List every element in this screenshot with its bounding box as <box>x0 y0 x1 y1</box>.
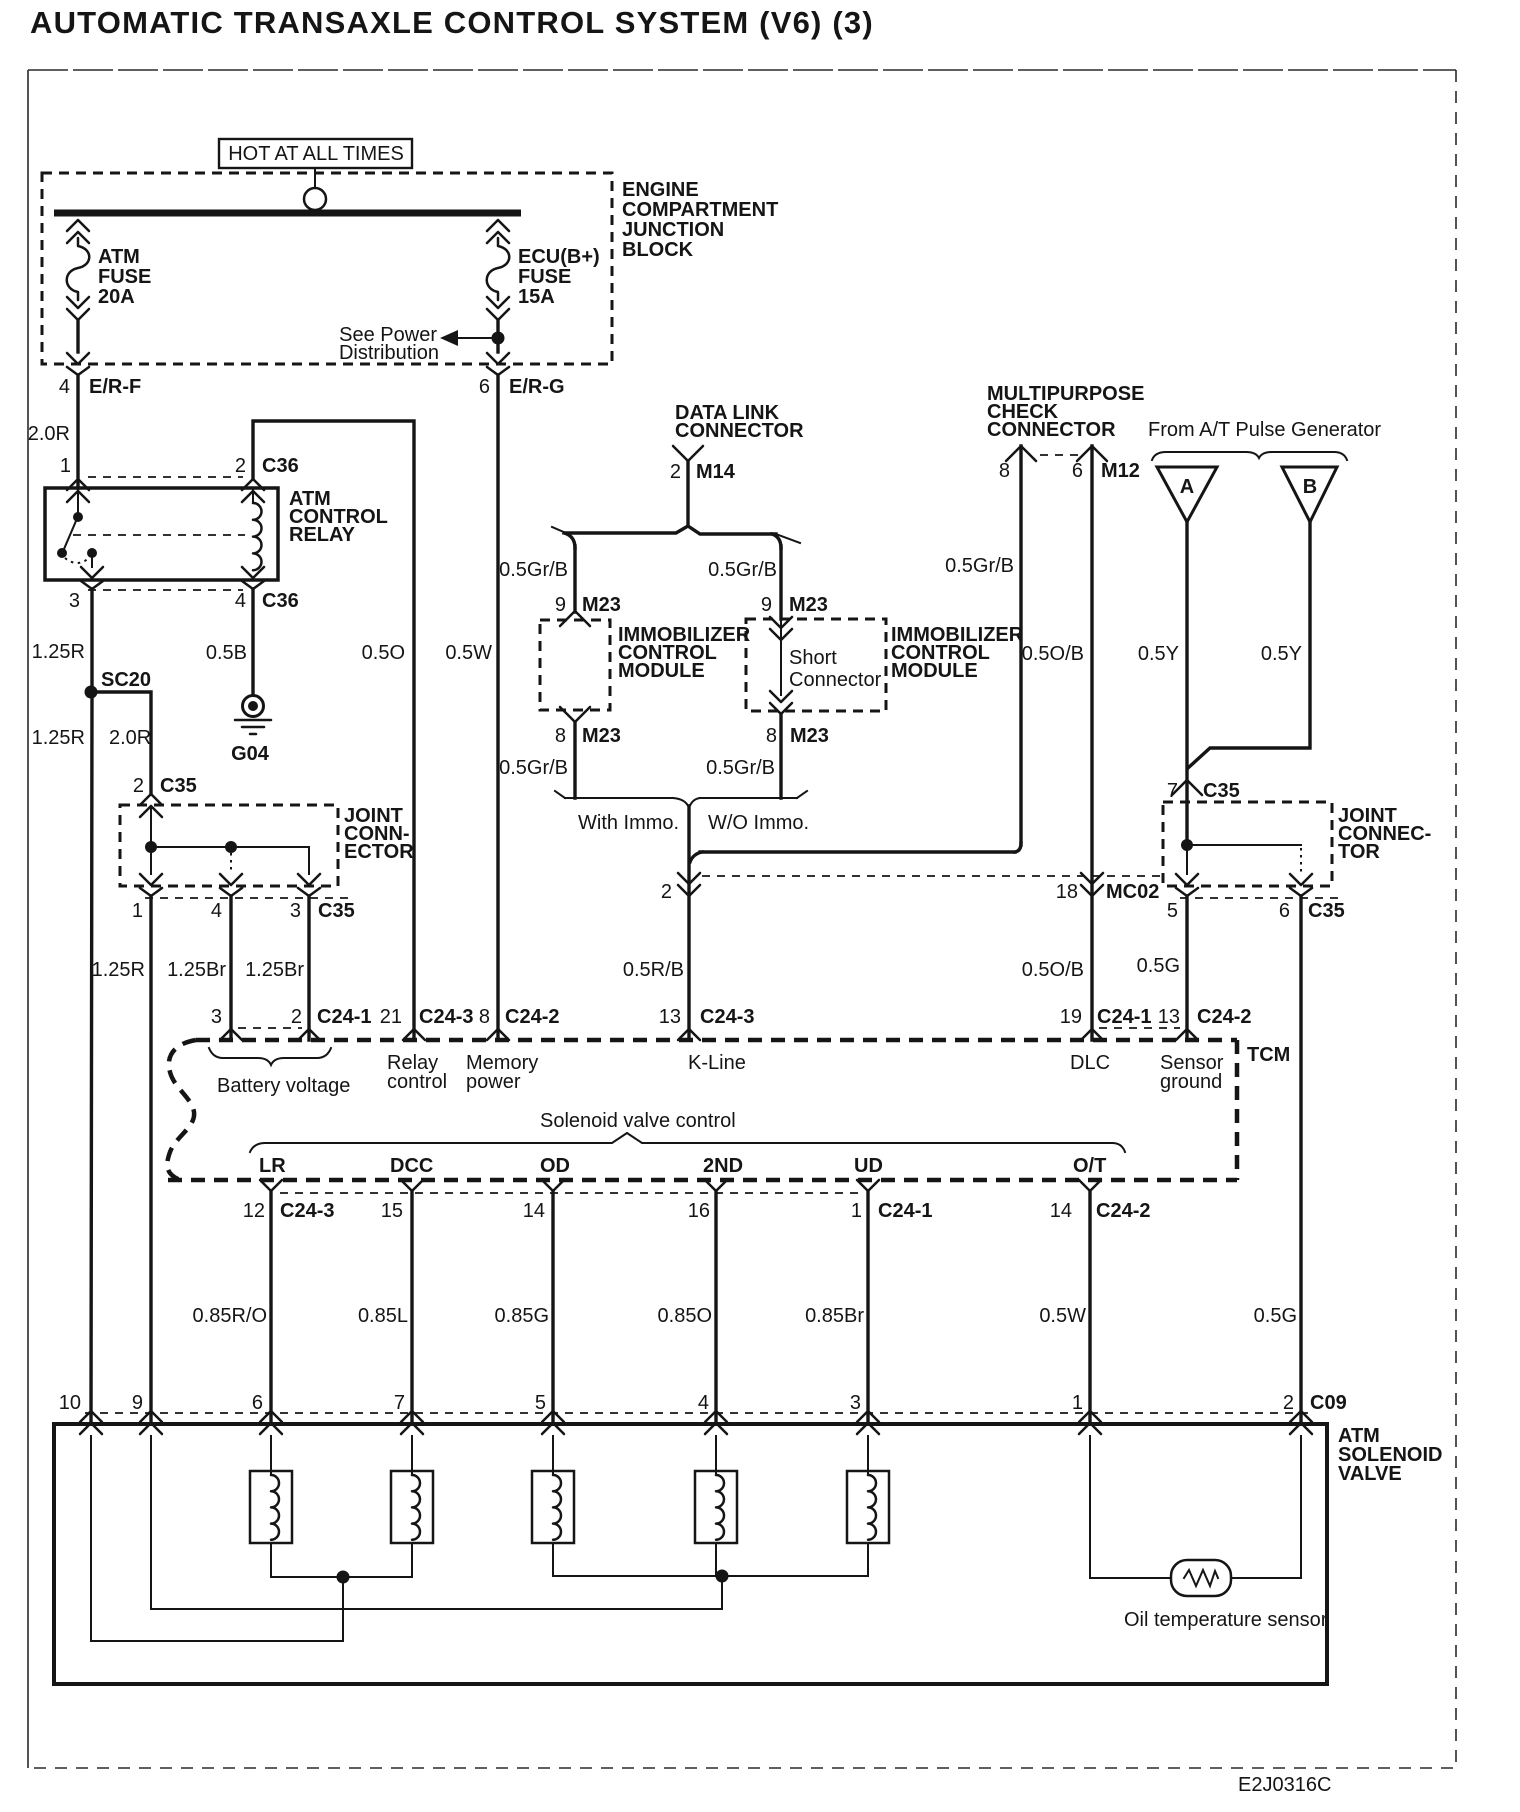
wire relay pin3 down (1.25R) to C09 pin 10 <box>91 589 92 1423</box>
svg-text:C35: C35 <box>160 775 197 797</box>
joint connector (left) dashed box <box>120 805 338 886</box>
internal bus <box>151 846 309 848</box>
svg-text:8: 8 <box>479 1006 490 1028</box>
svg-text:9: 9 <box>761 594 772 616</box>
TCM pin 2 C24-1 chevron <box>298 1029 320 1040</box>
svg-text:1.25Br: 1.25Br <box>167 959 226 981</box>
wire stem from HOT box to bus <box>314 168 316 188</box>
wire from B down, jog left into A line <box>1188 522 1310 768</box>
svg-text:A: A <box>1180 476 1194 498</box>
merge bracket right segment <box>700 797 797 799</box>
HOT AT ALL TIMES box <box>219 139 412 168</box>
right overshoot flick <box>776 534 800 543</box>
svg-text:3: 3 <box>850 1392 861 1414</box>
right immobilizer exit chevrons <box>770 691 792 714</box>
svg-text:Short: Short <box>789 647 837 669</box>
svg-text:Oil temperature sensor: Oil temperature sensor <box>1124 1609 1328 1631</box>
see power distribution arrow <box>440 330 458 346</box>
svg-text:6: 6 <box>479 376 490 398</box>
multipurpose pin 6 terminal <box>1077 446 1107 461</box>
svg-text:C24-1: C24-1 <box>878 1200 932 1222</box>
battery voltage underbrace <box>209 1048 331 1065</box>
svg-text:Solenoid valve control: Solenoid valve control <box>540 1110 736 1132</box>
wire from A down (0.5Y) <box>1185 522 1188 845</box>
svg-text:MODULE: MODULE <box>891 660 978 682</box>
switch contact dot NO <box>87 548 97 558</box>
C09 pin 6 chevrons <box>260 1411 282 1434</box>
svg-text:4: 4 <box>211 900 222 922</box>
svg-text:0.5Y: 0.5Y <box>1138 643 1179 665</box>
svg-text:0.5Gr/B: 0.5Gr/B <box>499 559 568 581</box>
oil temperature sensor body <box>1171 1560 1231 1596</box>
svg-text:4: 4 <box>235 590 246 612</box>
svg-text:UD: UD <box>854 1155 883 1177</box>
svg-text:With Immo.: With Immo. <box>578 812 679 834</box>
svg-text:CONNECTOR: CONNECTOR <box>675 420 804 442</box>
internal drop pin1 <box>150 852 152 874</box>
solenoid valve control bracket <box>250 1133 1125 1152</box>
svg-text:0.5G: 0.5G <box>1137 955 1180 977</box>
svg-text:M23: M23 <box>789 594 828 616</box>
merged K-line wire down <box>687 806 690 1040</box>
svg-text:C35: C35 <box>318 900 355 922</box>
solenoid coil LR (pin6) <box>270 1436 272 1474</box>
C35 pin2 entry chevrons <box>140 794 162 817</box>
wire E/R-F down to relay pin 1 <box>76 375 79 488</box>
sensor zigzag <box>1184 1570 1218 1586</box>
svg-text:ATM: ATM <box>98 246 140 268</box>
TCM pin 14 C24-2 O/T chevron <box>1079 1180 1101 1191</box>
svg-text:1: 1 <box>1072 1392 1083 1414</box>
wire relay pin4 down (0.5B) to ground <box>251 589 254 695</box>
svg-text:From A/T Pulse Generator: From A/T Pulse Generator <box>1148 419 1381 441</box>
thin dashed C35 line <box>1180 897 1345 899</box>
svg-text:COMPARTMENT: COMPARTMENT <box>622 199 778 221</box>
multipurpose pin 8 terminal <box>1006 446 1036 461</box>
svg-text:TOR: TOR <box>1338 841 1380 863</box>
TCM left wavy edge <box>167 1040 196 1180</box>
svg-text:C36: C36 <box>262 455 299 477</box>
svg-text:1: 1 <box>851 1200 862 1222</box>
short connector internal wire <box>780 619 782 695</box>
junction dot <box>225 841 237 853</box>
svg-text:15A: 15A <box>518 286 555 308</box>
svg-text:ENGINE: ENGINE <box>622 179 699 201</box>
svg-text:DLC: DLC <box>1070 1052 1110 1074</box>
svg-text:6: 6 <box>252 1392 263 1414</box>
joint connector exit pin 1 C35 <box>140 874 162 896</box>
svg-text:1.25Br: 1.25Br <box>245 959 304 981</box>
svg-text:16: 16 <box>688 1200 710 1222</box>
internal wire pin10 <box>90 1436 92 1641</box>
short connector dashed box <box>746 619 886 711</box>
svg-text:C24-1: C24-1 <box>1097 1006 1151 1028</box>
svg-text:BLOCK: BLOCK <box>622 239 694 261</box>
right immobilizer entry chevrons <box>770 617 792 640</box>
joint connector right exit pin 6 C35 <box>1290 874 1312 896</box>
M14 stem wire <box>686 461 689 526</box>
svg-text:C24-3: C24-3 <box>700 1006 754 1028</box>
svg-text:C36: C36 <box>262 590 299 612</box>
splice SC20 dot <box>85 686 98 699</box>
relay coil wire from pin2 <box>252 490 254 503</box>
C09 pin 7 chevrons <box>401 1411 423 1434</box>
svg-text:21: 21 <box>380 1006 402 1028</box>
svg-text:CONNECTOR: CONNECTOR <box>987 419 1116 441</box>
svg-text:1.25R: 1.25R <box>32 641 85 663</box>
internal dotted drop pin4 <box>230 853 232 874</box>
svg-text:C09: C09 <box>1310 1392 1347 1414</box>
svg-text:8: 8 <box>766 725 777 747</box>
branch wire SC20 to C35 pin 2 <box>95 692 151 794</box>
internal drop pin5 <box>1186 850 1188 874</box>
svg-text:2: 2 <box>291 1006 302 1028</box>
internal bus <box>1187 844 1301 846</box>
svg-text:Battery voltage: Battery voltage <box>217 1075 350 1097</box>
svg-text:0.5Y: 0.5Y <box>1261 643 1302 665</box>
solenoid wires TCM to C09 <box>269 1191 272 1423</box>
svg-text:15: 15 <box>381 1200 403 1222</box>
ground G04 symbol <box>243 696 264 717</box>
C35 pin7 entry chevron <box>1172 780 1202 795</box>
svg-text:Connector: Connector <box>789 669 882 691</box>
internal dotted drop pin6 <box>1300 848 1302 874</box>
right corner curve into x781 <box>772 534 781 548</box>
svg-text:19: 19 <box>1060 1006 1082 1028</box>
relay switch: wire from pin1 <box>77 490 79 513</box>
svg-text:0.5Gr/B: 0.5Gr/B <box>499 757 568 779</box>
fuse ECU bottom terminals <box>487 297 509 320</box>
relay pin 3 break <box>81 567 103 589</box>
svg-text:13: 13 <box>1158 1006 1180 1028</box>
svg-text:AUTOMATIC TRANSAXLE CONTROL SY: AUTOMATIC TRANSAXLE CONTROL SYSTEM (V6) … <box>30 5 874 40</box>
switch travel dotted arc <box>65 558 89 563</box>
oil temperature sensor circuit <box>1090 1436 1171 1578</box>
thin dashed between pins 19-13 <box>1099 1027 1180 1029</box>
svg-text:2: 2 <box>1283 1392 1294 1414</box>
TCM pin 8 C24-2 chevron <box>487 1029 509 1040</box>
TCM right edge <box>1235 1040 1240 1180</box>
svg-text:0.5O/B: 0.5O/B <box>1022 643 1084 665</box>
thin dashed between pins 3-2 <box>238 1027 302 1029</box>
wire to pin 3 <box>91 557 93 567</box>
svg-text:M12: M12 <box>1101 460 1140 482</box>
svg-text:M23: M23 <box>582 594 621 616</box>
merge bracket left segment <box>565 797 673 799</box>
C09 pin 1 chevrons <box>1079 1411 1101 1434</box>
svg-text:0.5G: 0.5G <box>1254 1305 1297 1327</box>
svg-text:E2J0316C: E2J0316C <box>1238 1774 1331 1796</box>
TCM bottom edge <box>168 1178 1237 1183</box>
svg-text:8: 8 <box>555 725 566 747</box>
C09 pin 4 chevrons <box>705 1411 727 1434</box>
wire pin6 down (0.5G) to C09 pin 2 <box>1299 896 1302 1423</box>
svg-text:O/T: O/T <box>1073 1155 1106 1177</box>
svg-text:JUNCTION: JUNCTION <box>622 219 724 241</box>
svg-text:control: control <box>387 1071 447 1093</box>
svg-text:E/R-F: E/R-F <box>89 376 141 398</box>
svg-text:2ND: 2ND <box>703 1155 743 1177</box>
svg-text:14: 14 <box>523 1200 545 1222</box>
left immobilizer exit chevron <box>560 707 590 722</box>
svg-text:0.5Gr/B: 0.5Gr/B <box>945 555 1014 577</box>
svg-text:4: 4 <box>59 376 70 398</box>
fuse ECU(B+) wavy element <box>487 238 510 300</box>
svg-text:power: power <box>466 1071 521 1093</box>
svg-text:5: 5 <box>535 1392 546 1414</box>
TCM pin 15 DCC chevron <box>401 1180 423 1191</box>
svg-text:3: 3 <box>69 590 80 612</box>
svg-text:0.5R/B: 0.5R/B <box>623 959 684 981</box>
OD/2ND/UD common: joins and drop <box>553 1575 868 1577</box>
pulse generator triangle B <box>1282 467 1337 522</box>
joint connector right exit pin 5 C35 <box>1176 874 1198 896</box>
bus bar <box>54 210 521 217</box>
svg-text:2: 2 <box>670 461 681 483</box>
svg-text:12: 12 <box>243 1200 265 1222</box>
svg-text:Distribution: Distribution <box>339 342 439 364</box>
solenoid coil UD (pin3) <box>867 1436 869 1474</box>
split to two 0.5Gr/B branches <box>566 526 688 533</box>
wire E/R-G down to TCM pin 8 C24-2 <box>496 375 499 1040</box>
internal drop pin3 <box>308 847 310 874</box>
C09 pin 10 chevrons <box>80 1411 102 1434</box>
junction curve from multipurpose-8 horizontal <box>690 852 702 862</box>
svg-text:M23: M23 <box>582 725 621 747</box>
svg-text:ECU(B+): ECU(B+) <box>518 246 600 268</box>
svg-text:2.0R: 2.0R <box>28 423 70 445</box>
svg-text:0.5B: 0.5B <box>206 642 247 664</box>
fuse ATM 20A wavy element <box>67 238 90 300</box>
left immobilizer entry chevron <box>560 611 590 626</box>
svg-text:0.85Br: 0.85Br <box>805 1305 864 1327</box>
svg-text:B: B <box>1303 476 1317 498</box>
svg-text:DCC: DCC <box>390 1155 433 1177</box>
immobilizer control module (with immo) dashed box <box>540 620 610 710</box>
svg-text:9: 9 <box>132 1392 143 1414</box>
wire from left immob down <box>573 722 576 798</box>
C09 pin 3 chevrons <box>857 1411 879 1434</box>
svg-text:C24-2: C24-2 <box>505 1006 559 1028</box>
svg-text:C35: C35 <box>1308 900 1345 922</box>
switch blade <box>64 521 76 549</box>
svg-text:18: 18 <box>1056 881 1078 903</box>
junction dot <box>1181 839 1193 851</box>
svg-text:FUSE: FUSE <box>98 266 151 288</box>
svg-text:0.85L: 0.85L <box>358 1305 408 1327</box>
wire to right immobilizer <box>779 546 782 619</box>
svg-text:0.85O: 0.85O <box>658 1305 712 1327</box>
svg-text:C24-3: C24-3 <box>280 1200 334 1222</box>
TCM pin 19 C24-1 chevron <box>1081 1029 1103 1040</box>
svg-text:OD: OD <box>540 1155 570 1177</box>
svg-text:0.5Gr/B: 0.5Gr/B <box>708 559 777 581</box>
wire M12 pin 6 down (0.5O/B) <box>1090 446 1093 1040</box>
svg-text:8: 8 <box>999 460 1010 482</box>
joint connector internal wire from pin2 <box>150 808 152 847</box>
wire multipurpose 8 down <box>1019 446 1022 845</box>
svg-text:0.5Gr/B: 0.5Gr/B <box>706 757 775 779</box>
svg-text:ground: ground <box>1160 1071 1222 1093</box>
svg-text:0.5W: 0.5W <box>1039 1305 1086 1327</box>
svg-text:0.5W: 0.5W <box>445 642 492 664</box>
svg-text:MC02: MC02 <box>1106 881 1159 903</box>
wire joint pin1 down (1.25R) to C09 pin 9 <box>149 896 152 1423</box>
TCM pin 12 C24-3 LR chevron <box>260 1180 282 1191</box>
svg-text:1: 1 <box>60 455 71 477</box>
svg-text:5: 5 <box>1167 900 1178 922</box>
solenoid coil 2ND (pin4) <box>715 1436 717 1474</box>
svg-text:W/O Immo.: W/O Immo. <box>708 812 809 834</box>
relay internal dashed line <box>73 534 245 536</box>
pulse generator triangle A <box>1157 467 1217 522</box>
engine compartment junction block (dashed box) <box>42 173 612 364</box>
TCM pin 13 C24-3 chevron <box>678 1029 700 1040</box>
svg-text:4: 4 <box>698 1392 709 1414</box>
M14 terminal cup <box>673 446 703 461</box>
svg-text:C35: C35 <box>1203 780 1240 802</box>
ATM control relay box <box>45 488 278 580</box>
svg-text:M14: M14 <box>696 461 736 483</box>
TCM pin 14 OD chevron <box>542 1180 564 1191</box>
svg-text:7: 7 <box>394 1392 405 1414</box>
svg-text:6: 6 <box>1279 900 1290 922</box>
solenoid coil DCC (pin7) <box>411 1436 413 1474</box>
thin dashed C36 line below relay <box>88 589 243 591</box>
svg-text:2.0R: 2.0R <box>109 727 151 749</box>
solenoid coil OD (pin5) <box>552 1436 554 1474</box>
TCM pin 16 2ND chevron <box>705 1180 727 1191</box>
svg-text:C24-2: C24-2 <box>1197 1006 1251 1028</box>
svg-text:3: 3 <box>211 1006 222 1028</box>
page border <box>27 70 29 1768</box>
svg-text:RELAY: RELAY <box>289 524 356 546</box>
svg-text:C24-1: C24-1 <box>317 1006 371 1028</box>
svg-text:0.85G: 0.85G <box>495 1305 549 1327</box>
break at box exit E/R-G <box>487 353 509 375</box>
thin dashed harness line <box>702 875 1163 877</box>
relay pin 4 break <box>242 567 264 589</box>
TCM pin 21 C24-3 chevron <box>403 1029 425 1040</box>
svg-text:13: 13 <box>659 1006 681 1028</box>
wire joint pin3 down (1.25Br) to TCM pin 2 <box>307 896 310 1040</box>
ATM solenoid valve box <box>54 1424 1327 1684</box>
left overshoot flick <box>552 527 566 533</box>
C09 pin 2 chevrons <box>1290 1411 1312 1434</box>
svg-text:LR: LR <box>259 1155 286 1177</box>
relay pin 2 entry chevrons <box>242 479 264 502</box>
C09 pin 9 chevrons <box>140 1411 162 1434</box>
svg-text:1: 1 <box>132 900 143 922</box>
internal wire pin9 <box>150 1436 152 1609</box>
fuse ATM bottom terminals <box>67 297 89 320</box>
MC02 connector chevrons <box>1081 873 1103 896</box>
svg-text:2: 2 <box>661 881 672 903</box>
svg-text:2: 2 <box>133 775 144 797</box>
node circle on bus <box>304 188 326 210</box>
svg-text:ECTOR: ECTOR <box>344 841 414 863</box>
fuse ATM 20A column terminals at bus <box>67 220 89 243</box>
wire <box>76 320 79 352</box>
svg-text:0.5O/B: 0.5O/B <box>1022 959 1084 981</box>
junction dot <box>145 841 157 853</box>
svg-text:SC20: SC20 <box>101 669 151 691</box>
wire <box>496 320 499 352</box>
wire joint pin4 down (1.25Br) to TCM pin 3 <box>229 896 232 1040</box>
wire from right immob down <box>779 714 782 798</box>
wire relay pin2 up and right to 0.5O run <box>253 421 414 1040</box>
svg-text:M23: M23 <box>790 725 829 747</box>
K-line connector chevrons pin 2 <box>678 873 700 896</box>
svg-text:VALVE: VALVE <box>1338 1463 1402 1485</box>
TCM pin 13 C24-2 chevron <box>1176 1029 1198 1040</box>
switch contact dot NC <box>57 548 67 558</box>
svg-text:C24-3: C24-3 <box>419 1006 473 1028</box>
svg-text:C24-2: C24-2 <box>1096 1200 1150 1222</box>
svg-text:0.5O: 0.5O <box>362 642 405 664</box>
svg-text:E/R-G: E/R-G <box>509 376 565 398</box>
joint connector exit pin 4 C35 <box>220 874 242 896</box>
left corner curve into x575 <box>564 533 575 548</box>
svg-text:14: 14 <box>1050 1200 1072 1222</box>
C09 pin 5 chevrons <box>542 1411 564 1434</box>
break at box exit E/R-F <box>67 353 89 375</box>
svg-text:0.85R/O: 0.85R/O <box>193 1305 267 1327</box>
svg-text:K-Line: K-Line <box>688 1052 746 1074</box>
thin dashed C35 line below joint connector <box>145 897 348 899</box>
joint connector (right) dashed box <box>1163 802 1332 886</box>
svg-text:HOT AT ALL TIMES: HOT AT ALL TIMES <box>228 143 404 165</box>
svg-text:MODULE: MODULE <box>618 660 705 682</box>
wire to left immobilizer <box>573 546 576 612</box>
svg-text:FUSE: FUSE <box>518 266 571 288</box>
joint connector exit pin 3 C35 <box>298 874 320 896</box>
svg-text:10: 10 <box>59 1392 81 1414</box>
C09 thin dashed connector line <box>85 1412 1315 1414</box>
TCM pin 1 C24-1 UD chevron <box>857 1180 879 1191</box>
fuse ECU(B+) 15A column terminals at bus <box>487 220 509 243</box>
dashed segment between pins <box>1040 454 1078 456</box>
svg-text:6: 6 <box>1072 460 1083 482</box>
TCM top edge <box>196 1038 1237 1043</box>
thin dashed C36 line above relay <box>88 476 243 478</box>
relay coil <box>253 503 262 570</box>
TCM pin 3 C24-1 chevron <box>220 1029 242 1040</box>
junction dot on ECU wire <box>492 332 505 345</box>
switch pivot dot <box>73 512 83 522</box>
svg-text:20A: 20A <box>98 286 135 308</box>
thin dashed below TCM bottom pins <box>280 1192 860 1194</box>
svg-text:TCM: TCM <box>1247 1044 1290 1066</box>
svg-text:9: 9 <box>555 594 566 616</box>
svg-text:2: 2 <box>235 455 246 477</box>
svg-text:3: 3 <box>290 900 301 922</box>
svg-text:1.25R: 1.25R <box>32 727 85 749</box>
svg-text:G04: G04 <box>231 743 270 765</box>
relay pin 1 entry chevrons <box>67 479 89 502</box>
LR/DCC common: joins and drop <box>271 1576 412 1578</box>
wire pin5 down (0.5G) to TCM 13 C24-2 <box>1185 896 1188 1040</box>
horizontal from multipurpose pin 8 <box>700 850 1015 853</box>
overbrace <box>1152 452 1347 460</box>
svg-text:1.25R: 1.25R <box>92 959 145 981</box>
